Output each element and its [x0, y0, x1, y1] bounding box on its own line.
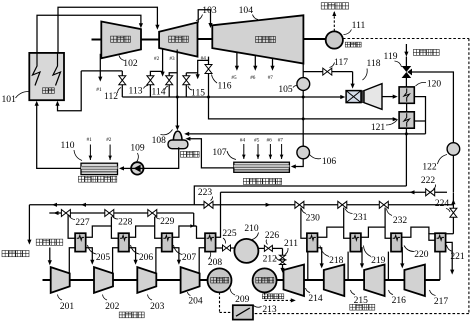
valve 231 [338, 201, 347, 208]
HP cylinder 102 [92, 22, 142, 59]
wire 218 out [317, 227, 344, 237]
wire 120 drain [414, 97, 425, 134]
wire air 204-208 [199, 248, 205, 273]
wire air 219-216 [360, 248, 364, 269]
label 101 [2, 91, 29, 105]
wire feedwater [35, 101, 81, 169]
dashed motor line [220, 292, 233, 312]
svg-text:214: 214 [308, 294, 323, 304]
wire 219 out [361, 227, 386, 237]
wire ejector out [382, 95, 398, 99]
label 224 [435, 199, 450, 212]
svg-text:117: 117 [334, 58, 348, 68]
label 210 [244, 224, 259, 240]
label 202 [103, 295, 120, 312]
valve 117 [303, 68, 352, 75]
LPH inlet #4 [240, 138, 246, 160]
label 220 [404, 246, 429, 261]
expander 214 [284, 265, 305, 297]
label 226 [265, 231, 280, 245]
boiler 101 [29, 53, 64, 100]
wire air 214-218 [307, 252, 309, 280]
label 104 [239, 5, 258, 20]
svg-text:#2: #2 [106, 137, 112, 143]
valve 223 [204, 201, 221, 208]
svg-text:207: 207 [182, 253, 197, 263]
svg-text:228: 228 [118, 217, 133, 227]
label 221 [447, 245, 465, 262]
svg-text:#7: #7 [268, 75, 274, 81]
svg-text:118: 118 [367, 59, 381, 69]
label 227 [69, 216, 90, 228]
label 231 [345, 209, 368, 223]
generator 111 [326, 31, 361, 48]
svg-text:116: 116 [218, 82, 232, 92]
label 222 [421, 176, 436, 189]
wire 224 jog [429, 234, 454, 241]
svg-text:108: 108 [152, 136, 167, 146]
wire 229 feed [155, 217, 162, 239]
label 225 [222, 229, 237, 243]
extraction #3 [169, 50, 177, 98]
wire LP exhaust [302, 64, 304, 78]
air tank 210 [234, 239, 258, 263]
svg-text:223: 223 [198, 188, 213, 198]
wire 230 feed [301, 208, 307, 239]
label 211 [284, 239, 298, 254]
motor 209 [208, 268, 232, 292]
wire 207 out [172, 226, 197, 237]
svg-text:220: 220 [414, 250, 429, 260]
svg-text:122: 122 [422, 163, 437, 173]
extraction #5 [231, 52, 239, 81]
generator expander [253, 268, 277, 292]
valve 212 [280, 260, 286, 273]
label 110 [61, 141, 82, 161]
shaft gen-214 [277, 279, 284, 281]
wire 120-121 [406, 103, 408, 112]
svg-text:217: 217 [434, 297, 449, 307]
svg-text:226: 226 [265, 231, 280, 241]
svg-text:109: 109 [130, 144, 145, 154]
LP cylinder 104 [212, 15, 303, 63]
label 232 [387, 209, 408, 226]
wire LPheater to deaerator [185, 137, 233, 168]
label 217 [430, 290, 449, 307]
label 218 [320, 246, 344, 266]
svg-text:#1: #1 [96, 87, 102, 93]
label 205 [88, 245, 111, 263]
svg-text:205: 205 [96, 253, 111, 263]
label 206 [131, 245, 154, 263]
svg-text:110: 110 [61, 141, 75, 151]
extraction #4 [196, 55, 209, 79]
label expander unit [350, 304, 375, 310]
pump 122 [447, 143, 460, 156]
pump 106 [297, 146, 310, 159]
LP heater group 107 [234, 162, 290, 184]
label 203 [148, 295, 165, 312]
label 114 [152, 86, 168, 98]
valve 119 [402, 66, 412, 87]
valve 116 [205, 60, 212, 97]
node header junctions [176, 96, 305, 99]
svg-text:#1: #1 [87, 137, 93, 143]
label 213 [254, 305, 277, 315]
node drain [405, 132, 408, 135]
valve 112 [119, 71, 126, 97]
label 215 [351, 290, 369, 306]
wire 109 to HPheaters [119, 166, 132, 170]
svg-text:209: 209 [235, 295, 250, 305]
label 109 [130, 144, 145, 163]
valve 229 [148, 210, 157, 217]
switch 213 [233, 305, 253, 319]
wire motive steam [351, 72, 355, 89]
compressor 203 [137, 267, 156, 293]
label 105 [278, 85, 297, 95]
compressor 204 [181, 267, 200, 293]
wire riser 220.5 [215, 192, 220, 237]
svg-text:114: 114 [152, 88, 166, 98]
svg-text:231: 231 [353, 213, 368, 223]
label 111 [344, 20, 366, 35]
svg-text:#7: #7 [278, 138, 284, 144]
crossover pipe [198, 10, 212, 28]
svg-text:203: 203 [150, 302, 165, 312]
svg-text:112: 112 [104, 92, 118, 102]
compressor 201 [51, 267, 70, 293]
svg-text:219: 219 [371, 256, 386, 266]
wire deaerator feed [175, 97, 179, 131]
svg-text:120: 120 [427, 80, 442, 90]
heater 120 [399, 87, 414, 103]
valve 225 [223, 245, 235, 251]
svg-text:#3: #3 [169, 56, 175, 62]
wire 206 out [129, 226, 155, 237]
wire lineA [194, 186, 406, 205]
shaft LP-generator [303, 38, 325, 40]
label 208 [208, 253, 223, 268]
label hot-net supply [2, 250, 29, 256]
valve 226 [264, 245, 282, 251]
intercooler 206 [118, 233, 129, 251]
wire air 218-215 [317, 248, 324, 269]
dashed generator output [262, 292, 295, 302]
label 116 [212, 75, 232, 92]
wire line1 [29, 203, 203, 207]
label 117 [330, 58, 349, 68]
heater 121 [399, 112, 414, 128]
wire air 202-206 [113, 248, 119, 273]
wire 220 out [401, 227, 429, 237]
wire 119 bypass [412, 72, 453, 143]
shaft expander train [304, 279, 440, 281]
HPH inlet #1 [87, 137, 93, 160]
svg-text:#6: #6 [250, 75, 256, 81]
wire air 207-204 [172, 248, 181, 265]
HP heater group 110 [78, 163, 117, 182]
svg-text:222: 222 [421, 176, 436, 186]
pump 109 [131, 162, 143, 174]
wire extraction header [122, 95, 345, 99]
wire deaerator out [144, 147, 179, 168]
valve 114 [166, 73, 177, 97]
svg-text:#2: #2 [154, 56, 160, 62]
wire right drop [451, 192, 455, 208]
svg-text:#5: #5 [231, 75, 237, 81]
dashed grid line [253, 39, 469, 314]
wire air 217-221 [439, 252, 441, 280]
expander 216 [364, 265, 385, 297]
label 209 [230, 289, 250, 305]
svg-text:210: 210 [244, 224, 259, 234]
wire air 201-205 [69, 248, 75, 273]
svg-text:#5: #5 [254, 138, 260, 144]
label 112 [104, 88, 121, 103]
svg-text:216: 216 [392, 296, 407, 306]
reheater 220 [391, 233, 402, 251]
wire steam to 121 [209, 97, 398, 121]
label 107 [212, 148, 236, 159]
wire drain to deaerator [184, 132, 425, 136]
svg-text:104: 104 [239, 5, 254, 16]
label compressor unit [119, 312, 144, 318]
wire air 203-207 [156, 248, 162, 273]
wire condensate to LP heaters [291, 159, 303, 169]
wire 205 out [85, 226, 111, 237]
label 201 [58, 295, 75, 312]
wire cold reheat [55, 71, 122, 111]
svg-text:232: 232 [393, 216, 408, 226]
wire 121 down [405, 128, 407, 134]
svg-text:218: 218 [329, 256, 344, 266]
LPH inlet #7 [278, 138, 284, 160]
svg-text:208: 208 [208, 258, 223, 268]
valve 115 [183, 73, 198, 97]
shaft compressor train [43, 279, 208, 281]
label 228 [112, 216, 133, 228]
label 103 [196, 5, 217, 21]
svg-text:113: 113 [129, 87, 143, 97]
svg-text:105: 105 [278, 85, 293, 95]
wire 122 down [452, 155, 454, 192]
valve 232 [379, 201, 388, 208]
label 102 [119, 56, 138, 69]
valve 113 [147, 71, 163, 97]
label 204 [188, 292, 203, 307]
wire 232 feed [385, 208, 391, 239]
wire air 205-202 [85, 248, 94, 265]
valve 224 [450, 208, 457, 234]
wire air 216-220 [387, 252, 389, 280]
valve 228 [105, 210, 114, 217]
svg-text:202: 202 [105, 302, 120, 312]
svg-text:211: 211 [284, 239, 298, 249]
label 108 [152, 130, 173, 147]
shaft HP-IP [141, 39, 159, 41]
intercooler 207 [162, 233, 173, 251]
compressor 202 [94, 267, 113, 293]
HPH inlet #2 [106, 137, 112, 160]
label 106 [310, 155, 337, 167]
extraction #2 [154, 49, 165, 77]
wire lineB [221, 191, 448, 193]
svg-text:230: 230 [306, 213, 321, 223]
svg-text:227: 227 [75, 218, 90, 228]
wire lineB right [447, 191, 453, 193]
IP cylinder 103 [159, 22, 197, 56]
extraction #1 [96, 54, 102, 93]
svg-text:119: 119 [384, 52, 398, 62]
extraction #7 [268, 58, 275, 81]
svg-text:206: 206 [139, 253, 154, 263]
condenser pump 105 [297, 78, 310, 91]
reheater 218 [307, 233, 318, 251]
label 122 [422, 155, 447, 173]
label 214 [306, 288, 323, 304]
svg-text:212: 212 [263, 255, 278, 265]
wire tank out [258, 247, 264, 249]
svg-text:204: 204 [188, 297, 203, 307]
svg-text:111: 111 [352, 20, 366, 31]
wire air 206-203 [129, 248, 138, 265]
electric output top [321, 3, 348, 32]
wire line2 [49, 211, 193, 215]
wire hot reheat [58, 7, 160, 53]
svg-text:#6: #6 [267, 138, 273, 144]
label 216 [389, 290, 407, 306]
deaerator 108 [168, 131, 199, 157]
aftercooler 208 [205, 233, 216, 251]
label 120 [416, 80, 442, 90]
wire line1 ext [221, 203, 454, 207]
reheater 219 [350, 233, 361, 251]
valve 211 [280, 248, 286, 260]
label 115 [188, 86, 205, 99]
wire return water [404, 44, 408, 66]
wire 231 feed [344, 208, 351, 239]
wire 228 feed [111, 217, 118, 239]
ejector 118 [346, 84, 382, 110]
wire air intake [48, 248, 52, 266]
intercooler 205 [75, 233, 86, 251]
wire 227 feed [68, 215, 75, 238]
svg-text:213: 213 [262, 305, 277, 315]
label 118 [363, 59, 381, 80]
label 113 [129, 86, 148, 97]
valve 222 [410, 189, 435, 196]
svg-text:102: 102 [123, 58, 138, 69]
valve 227 [61, 210, 70, 217]
extraction #6 [250, 55, 257, 80]
label 223 [198, 188, 213, 201]
reheater 221 [435, 233, 446, 251]
label 229 [155, 216, 175, 227]
valve 230 [295, 201, 304, 208]
svg-text:229: 229 [160, 217, 175, 227]
shaft IP-LP [198, 38, 213, 40]
svg-text:121: 121 [371, 123, 386, 133]
label 212 [263, 255, 280, 265]
label 207 [174, 245, 197, 263]
label 219 [364, 246, 386, 266]
svg-text:225: 225 [222, 229, 237, 239]
wire main steam [37, 15, 143, 53]
expander 217 [404, 265, 425, 297]
svg-text:224: 224 [435, 199, 450, 209]
wire condensate [302, 90, 304, 146]
label 121 [371, 120, 398, 134]
wire air 215-219 [347, 252, 349, 280]
label hot-net return [413, 49, 439, 55]
wire air 208 out [215, 247, 222, 249]
svg-text:201: 201 [60, 302, 75, 312]
svg-text:101: 101 [2, 94, 17, 105]
svg-text:#4: #4 [240, 138, 246, 144]
label 230 [302, 209, 321, 224]
svg-text:106: 106 [322, 157, 337, 167]
label 119 [384, 52, 402, 67]
wire drain down [405, 134, 407, 186]
wire supply down [27, 205, 31, 245]
LPH inlet #5 [254, 138, 260, 160]
expander 215 [324, 265, 345, 297]
wire line2 end feed [190, 213, 205, 238]
svg-text:107: 107 [212, 148, 227, 158]
wire exhaust [445, 242, 454, 274]
wire air 220-217 [400, 248, 404, 269]
label ambient air [36, 239, 63, 245]
LPH inlet #6 [267, 138, 273, 160]
